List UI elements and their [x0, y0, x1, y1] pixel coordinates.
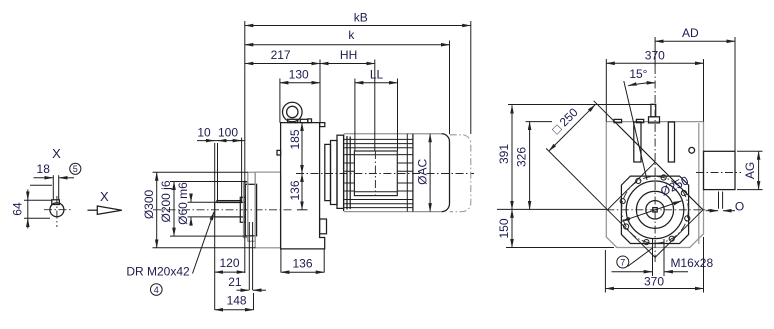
svg-text:AD: AD [682, 26, 699, 40]
fan cowl joint [406, 134, 408, 212]
svg-text:DR M20x42: DR M20x42 [126, 265, 190, 279]
output shaft [215, 202, 246, 217]
top plug front view [651, 104, 656, 117]
svg-text:Ø200 j6: Ø200 j6 [159, 180, 173, 222]
svg-text:15°: 15° [629, 67, 647, 81]
housing lug [277, 150, 281, 155]
svg-text:185: 185 [288, 129, 302, 149]
small hole top right [689, 147, 695, 153]
svg-text:136: 136 [292, 257, 312, 271]
svg-text:391: 391 [497, 144, 511, 164]
svg-text:Ø60 m6: Ø60 m6 [176, 182, 190, 225]
housing right boss [320, 219, 327, 234]
svg-text:kB: kB [354, 11, 368, 25]
front bearing block (gray) [255, 172, 280, 248]
dimension D250 leader [622, 201, 682, 221]
svg-text:370: 370 [644, 274, 664, 288]
slot hole right [668, 122, 674, 162]
shaft end edge [30, 184, 52, 186]
svg-text:130: 130 [289, 67, 309, 81]
svg-text:Ø300: Ø300 [142, 189, 156, 219]
adapter ring 2 [331, 141, 338, 205]
svg-text:136: 136 [288, 180, 302, 200]
svg-text:326: 326 [515, 147, 529, 167]
eyebolt [283, 102, 303, 122]
svg-text:150: 150 [497, 218, 511, 238]
shaft key [217, 201, 242, 203]
svg-text:AG: AG [743, 162, 757, 179]
adapter ring 1 [325, 144, 331, 200]
flange plate (gray) [248, 172, 255, 241]
svg-text:LL: LL [370, 67, 384, 81]
balloon 5 [70, 163, 81, 174]
bore circle [50, 203, 64, 217]
output shaft centerline [153, 209, 293, 211]
svg-text:21: 21 [228, 275, 242, 289]
housing top-right lip [320, 123, 325, 127]
motor cooling fins [344, 139, 413, 207]
horizontal centerline [606, 209, 712, 211]
motor axis centerline [296, 173, 474, 175]
svg-text:10: 10 [197, 126, 211, 140]
svg-text:ØAC: ØAC [416, 158, 430, 184]
svg-text:X: X [100, 189, 109, 204]
vertical centerline [654, 66, 656, 262]
bolt circle [622, 176, 689, 243]
svg-text:18: 18 [37, 162, 51, 176]
dimension 136 vertical [301, 174, 303, 210]
stator block [354, 151, 397, 196]
balloon 4 [151, 284, 163, 296]
svg-text:X: X [52, 146, 61, 161]
gear housing [281, 123, 325, 249]
phantom extended motor (gray) [450, 135, 471, 212]
slot hole left [634, 122, 641, 162]
motor centerline front [696, 172, 741, 174]
extension lines top dims [244, 21, 246, 273]
svg-text:217: 217 [271, 48, 291, 62]
dimension square 250 [546, 148, 607, 209]
balloon 7 leader [628, 248, 653, 267]
motor protrusion front [704, 151, 736, 189]
top tab 1 [614, 119, 622, 122]
flange step (gray) [244, 183, 248, 238]
flange octagon [621, 176, 688, 243]
center crosshair [44, 209, 71, 211]
plate inner edge (gray) [698, 123, 700, 244]
keyway extension lines [52, 175, 54, 200]
svg-text:O: O [735, 200, 744, 214]
svg-text:4: 4 [154, 285, 159, 295]
svg-text:HH: HH [340, 48, 357, 62]
svg-text:148: 148 [227, 294, 247, 308]
top tab 2 [636, 119, 643, 122]
svg-text:M16x28: M16x28 [670, 256, 713, 270]
balloon 7 [617, 256, 629, 268]
fan cowl right edge [442, 134, 450, 212]
motor end shield ribs [343, 135, 345, 212]
diagonal line across plate [618, 125, 704, 211]
bolt holes [661, 175, 666, 180]
shaft collar [240, 197, 245, 222]
keyway pocket [52, 200, 60, 205]
svg-text:k: k [348, 28, 355, 42]
motor body outline (gray) [344, 133, 442, 135]
svg-text:7: 7 [620, 257, 625, 267]
svg-text:120: 120 [219, 256, 239, 270]
svg-text:100: 100 [218, 126, 238, 140]
mounting plate (gray outline) [606, 122, 703, 248]
dimension OAC [429, 134, 431, 212]
bearing cylinder [245, 184, 256, 236]
center square [653, 208, 657, 212]
adapter ring 3 [337, 135, 344, 208]
svg-text:5: 5 [73, 164, 78, 174]
flange circles [626, 181, 684, 239]
svg-text:64: 64 [11, 202, 25, 216]
square flange diamond 250 [608, 162, 704, 257]
top plug [300, 119, 308, 122]
dimension 185 [301, 123, 303, 174]
